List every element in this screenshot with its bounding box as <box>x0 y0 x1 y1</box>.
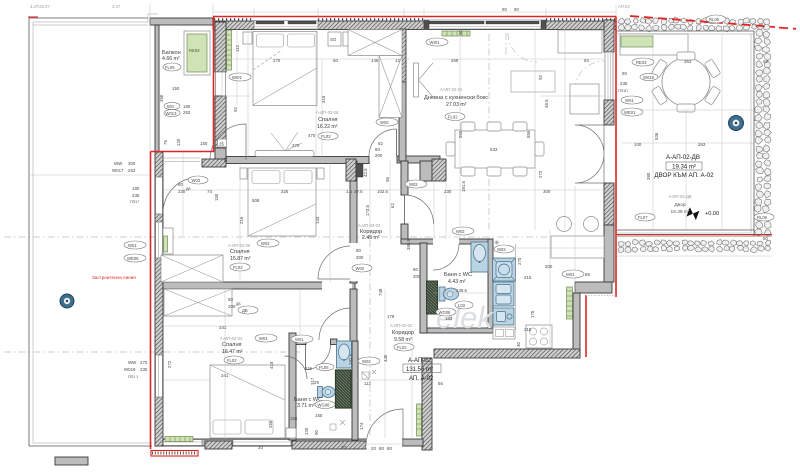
svg-text:42.5: 42.5 <box>363 168 368 177</box>
svg-text:418: 418 <box>269 361 274 369</box>
wardrobe bedroom2 with X <box>161 255 223 282</box>
construction thin lines vertical <box>150 4 722 439</box>
svg-text:263: 263 <box>698 142 706 147</box>
svg-text:180: 180 <box>132 186 140 191</box>
courtyard stone bands (rubble) <box>618 17 771 253</box>
svg-text:1.5: 1.5 <box>346 189 353 194</box>
terrace bottom-left hatched pad <box>55 457 88 465</box>
door arc wc lobby <box>285 356 308 379</box>
bedroom1/living divider wall <box>399 29 406 82</box>
svg-text:RL06: RL06 <box>709 17 720 22</box>
svg-text:92: 92 <box>538 75 543 80</box>
box 25 label <box>218 139 227 147</box>
svg-text:А-ИП-02-03: А-ИП-02-03 <box>358 223 381 228</box>
svg-text:341: 341 <box>221 373 229 378</box>
svg-text:92: 92 <box>233 107 238 112</box>
shaft box SO <box>328 32 341 46</box>
dashed slider arc living <box>508 33 537 62</box>
svg-text:300: 300 <box>543 189 551 194</box>
svg-text:80: 80 <box>413 267 418 272</box>
svg-text:46: 46 <box>347 380 352 385</box>
svg-text:Застроителна линия: Застроителна линия <box>92 275 136 280</box>
svg-text:230: 230 <box>444 189 452 194</box>
svg-text:175: 175 <box>530 310 535 318</box>
bottom wall hatched piece 1 <box>205 441 232 449</box>
svg-text:173.5: 173.5 <box>365 204 370 216</box>
bath1 washing machine <box>427 281 438 314</box>
svg-text:120: 120 <box>176 138 181 146</box>
kitchen stools <box>557 217 572 232</box>
balcony top wall <box>150 18 213 25</box>
svg-text:ПП1 1: ПП1 1 <box>128 375 138 379</box>
svg-text:ДВОР КЪМ АП. А-02: ДВОР КЪМ АП. А-02 <box>654 172 714 179</box>
window bedroom3 left <box>156 355 163 397</box>
svg-text:WE05: WE05 <box>127 256 139 261</box>
svg-text:82: 82 <box>378 141 383 146</box>
svg-text:RL06: RL06 <box>757 215 768 220</box>
svg-text:W02: W02 <box>362 359 371 364</box>
svg-text:508: 508 <box>252 198 260 203</box>
svg-text:Двор: Двор <box>674 202 685 208</box>
svg-text:12: 12 <box>395 58 400 63</box>
svg-text:300: 300 <box>545 264 553 269</box>
svg-text:FL07: FL07 <box>638 215 648 220</box>
red building line top <box>213 16 616 18</box>
corridor west wall <box>350 161 357 283</box>
svg-text:75: 75 <box>163 140 168 145</box>
svg-text:48.5: 48.5 <box>544 99 549 108</box>
svg-text:90: 90 <box>314 430 319 435</box>
terrace corner step top right <box>148 14 158 22</box>
kitchen hob unit <box>493 258 516 281</box>
svg-text:W02: W02 <box>497 247 506 252</box>
red building line balcony left <box>213 17 215 153</box>
svg-text:270: 270 <box>517 257 522 265</box>
bath2 walls <box>289 333 296 440</box>
svg-text:15.87 m²: 15.87 m² <box>230 256 251 262</box>
svg-text:270: 270 <box>140 360 148 365</box>
svg-text:385.5: 385.5 <box>406 238 411 250</box>
svg-text:112: 112 <box>364 381 372 386</box>
red building line west <box>150 152 152 450</box>
svg-text:230: 230 <box>178 189 186 194</box>
svg-text:3.71 m²: 3.71 m² <box>297 403 315 409</box>
svg-text:FL02: FL02 <box>321 134 331 139</box>
svg-text:440: 440 <box>383 354 388 362</box>
svg-text:62: 62 <box>390 203 395 208</box>
balcony bottom window band <box>163 157 200 159</box>
svg-text:FL05: FL05 <box>319 365 329 370</box>
door arc bath1 <box>433 244 459 270</box>
svg-text:180: 180 <box>183 104 191 109</box>
dashed window arc living right <box>575 61 604 90</box>
stove 4 rings <box>526 325 552 348</box>
svg-text:А-ИП-02-04: А-ИП-02-04 <box>220 336 243 341</box>
svg-text:W01: W01 <box>259 336 268 341</box>
svg-text:W01: W01 <box>295 337 304 342</box>
terrace outer wall bottom <box>29 445 152 447</box>
courtyard planter green <box>621 36 653 47</box>
svg-text:А-ИП-02-08: А-ИП-02-08 <box>316 110 339 115</box>
svg-text:235: 235 <box>140 367 148 372</box>
svg-text:ДВ: ДВ <box>186 187 191 191</box>
svg-text:16.47 m²: 16.47 m² <box>222 349 243 355</box>
svg-text:74: 74 <box>207 189 212 194</box>
svg-text:FL02: FL02 <box>397 345 407 350</box>
balcony door opening left wall <box>156 177 163 214</box>
svg-text:Спалня: Спалня <box>318 117 338 123</box>
dimension texts <box>112 30 768 451</box>
svg-text:Спалня: Спалня <box>222 342 242 348</box>
svg-text:272: 272 <box>167 360 172 368</box>
bath2 toilet <box>318 387 323 398</box>
bath2 washing machine <box>336 370 352 408</box>
svg-text:АП. А-02: АП. А-02 <box>409 376 434 382</box>
double door to courtyard upper leaf <box>575 125 604 154</box>
svg-text:А-ИП-02-01: А-ИП-02-01 <box>440 87 463 92</box>
bedroom1 left wall <box>215 22 226 72</box>
red dashed boundary over stone <box>630 16 775 27</box>
living/corridor wall piece <box>420 161 432 181</box>
red line kitchen east <box>585 295 587 357</box>
svg-text:215: 215 <box>524 327 532 332</box>
svg-text:80: 80 <box>375 147 380 152</box>
svg-text:150: 150 <box>172 86 180 91</box>
svg-text:50: 50 <box>763 59 768 64</box>
svg-text:155: 155 <box>315 413 323 418</box>
door arc corridor to bedroom3 <box>319 308 350 340</box>
svg-text:555: 555 <box>526 130 531 138</box>
column dark at corridor top <box>346 159 356 181</box>
svg-text:А-АП-02: А-АП-02 <box>408 358 432 364</box>
svg-text:192.5: 192.5 <box>348 353 353 365</box>
tv panel living <box>414 63 419 97</box>
misc glyph cluster corridor <box>362 370 376 379</box>
svg-text:120: 120 <box>304 427 309 435</box>
svg-text:80: 80 <box>178 182 183 187</box>
dining table <box>455 130 535 168</box>
door leaf bedroom1 <box>396 129 398 156</box>
svg-text:90: 90 <box>622 71 627 76</box>
door arc balcony into bedroom2 <box>163 178 191 214</box>
svg-text:Спалня: Спалня <box>230 249 250 255</box>
svg-text:А-АП-02-ДВ: А-АП-02-ДВ <box>666 154 700 161</box>
svg-text:3.47: 3.47 <box>112 4 121 9</box>
svg-text:80: 80 <box>379 446 384 451</box>
svg-text:163: 163 <box>445 316 453 321</box>
svg-text:ДВ: ДВ <box>236 302 241 306</box>
terrace drain <box>60 294 74 308</box>
desk bedroom2 <box>163 228 173 254</box>
corridor/bed3 wall vertical <box>350 289 357 354</box>
corridor east wall upper <box>401 161 408 195</box>
plant sketch bedroom1 <box>271 132 302 151</box>
svg-text:56: 56 <box>438 381 443 386</box>
svg-text:470: 470 <box>308 133 316 138</box>
bottom window bedroom3 <box>157 440 202 446</box>
svg-text:200: 200 <box>356 255 364 260</box>
radiator bedroom3 bottom <box>165 437 193 442</box>
svg-text:FL02: FL02 <box>227 358 237 363</box>
dining chairs sides <box>446 142 455 156</box>
courtyard bottom wall <box>617 229 754 231</box>
bath1 vanity sink <box>471 242 488 272</box>
radiator entrance <box>417 404 422 436</box>
svg-text:272: 272 <box>538 170 543 178</box>
right wall segment below door <box>604 183 614 225</box>
dining chairs bottom <box>461 167 475 176</box>
svg-text:Дневна с кухненски бокс: Дневна с кухненски бокс <box>424 95 488 101</box>
svg-text:Коридор: Коридор <box>392 330 414 336</box>
svg-text:90: 90 <box>514 7 519 12</box>
svg-text:341: 341 <box>219 325 227 330</box>
svg-text:363: 363 <box>684 59 692 64</box>
nightstand bedroom3 <box>286 428 296 438</box>
bath1 toilet <box>439 287 445 301</box>
radiator living top <box>442 31 470 36</box>
svg-text:W02: W02 <box>409 182 418 187</box>
svg-text:W019: W019 <box>124 367 136 372</box>
wardrobe bedroom1 with X <box>348 30 402 56</box>
window living right <box>605 52 613 100</box>
window bedroom1 top <box>254 18 318 29</box>
svg-text:WE01: WE01 <box>624 110 636 115</box>
svg-text:150: 150 <box>214 193 219 201</box>
svg-text:ПП1П: ПП1П <box>618 89 628 93</box>
door arc corridor to bedroom2 <box>318 246 350 279</box>
svg-text:WI01: WI01 <box>232 75 242 80</box>
svg-text:30: 30 <box>516 342 521 347</box>
svg-text:181.5: 181.5 <box>461 180 466 192</box>
svg-text:W017: W017 <box>112 168 124 173</box>
svg-text:150: 150 <box>200 141 208 146</box>
svg-text:300: 300 <box>128 161 136 166</box>
axis dashed line vertical corridor <box>369 240 371 438</box>
courtyard planter ledge <box>620 34 688 55</box>
red building line east <box>615 17 617 298</box>
kitchen east wall <box>573 293 580 358</box>
svg-text:50: 50 <box>763 236 768 241</box>
bath1 left wall <box>420 243 427 333</box>
kitchen base cabinet small <box>493 327 515 339</box>
nightstand bedroom1 left <box>243 32 252 44</box>
red corner mark top-left terrace <box>28 16 38 18</box>
svg-text:253: 253 <box>183 110 191 115</box>
bottom wall hatched piece 2 <box>292 441 366 449</box>
misc glyph cluster bath2 front <box>330 420 345 430</box>
svg-text:20: 20 <box>371 446 376 451</box>
radiator bedroom2 left wall <box>164 236 168 252</box>
svg-text:WG06: WG06 <box>439 310 452 315</box>
svg-text:80: 80 <box>228 297 233 302</box>
svg-text:145: 145 <box>371 58 379 63</box>
svg-text:27.03 m²: 27.03 m² <box>446 102 467 108</box>
svg-text:А-ИП-02-06: А-ИП-02-06 <box>228 243 251 248</box>
svg-text:25: 25 <box>219 142 224 147</box>
svg-text:100: 100 <box>634 142 642 147</box>
cabinet living top right <box>558 30 602 53</box>
svg-text:80: 80 <box>356 248 361 253</box>
svg-text:200: 200 <box>228 304 236 309</box>
svg-text:3.47/43.07: 3.47/43.07 <box>30 4 50 9</box>
svg-text:16.39 m²: 16.39 m² <box>671 209 690 215</box>
axis dashed line horizontal upper <box>4 236 600 238</box>
bottom wall of apartment <box>155 439 423 446</box>
door arc bath2 <box>306 345 331 370</box>
svg-text:315: 315 <box>321 95 326 103</box>
svg-text:FL06: FL06 <box>165 65 175 70</box>
svg-text:90: 90 <box>502 7 507 12</box>
right wall of living (to courtyard) <box>604 20 614 52</box>
wardrobe bedroom1 vertical part <box>379 56 402 118</box>
door arc small corridor to living <box>405 195 434 224</box>
bedroom1 left wall lower <box>215 96 226 148</box>
kitchen sink double <box>493 282 514 306</box>
svg-text:200: 200 <box>375 153 383 158</box>
bath1/kitchen divider wall <box>488 239 493 330</box>
bottom-right step wall <box>575 282 612 293</box>
kitchen bottom wall <box>434 349 580 358</box>
door arc bedroom2 top-left <box>210 124 246 160</box>
svg-text:Баня с WC: Баня с WC <box>444 272 472 278</box>
svg-text:215: 215 <box>524 275 532 280</box>
svg-text:WI01: WI01 <box>430 40 440 45</box>
wall right of small corridor <box>401 224 408 243</box>
svg-text:253: 253 <box>128 168 136 173</box>
svg-text:9.58 m²: 9.58 m² <box>394 337 412 343</box>
wardrobe bedroom3 with X <box>164 289 232 316</box>
axis dashed line horizontal lower <box>4 351 300 353</box>
svg-text:W01: W01 <box>128 243 137 248</box>
balcony corner blocks <box>215 148 226 159</box>
svg-text:131.56 m²: 131.56 m² <box>406 367 433 373</box>
bath2 sink <box>337 341 352 368</box>
svg-text:115: 115 <box>305 366 313 371</box>
door arc entrance <box>366 409 403 446</box>
door leaf small corridor <box>404 195 406 224</box>
svg-text:+0.00: +0.00 <box>705 211 719 217</box>
svg-text:174: 174 <box>359 422 364 430</box>
balcony planter RE03 <box>184 31 210 75</box>
svg-text:200: 200 <box>413 274 421 279</box>
svg-text:W02: W02 <box>356 266 365 271</box>
right wall segment <box>604 100 614 125</box>
kitchen counter top <box>551 236 604 258</box>
svg-text:265: 265 <box>268 420 273 428</box>
north arrow symbol <box>686 207 699 220</box>
svg-text:W02: W02 <box>380 120 389 125</box>
svg-text:90: 90 <box>458 30 463 35</box>
top wall band of apartment <box>213 21 616 30</box>
kitchen dishwasher <box>493 308 514 325</box>
bed bedroom1 <box>253 32 317 106</box>
svg-text:102.5: 102.5 <box>377 189 389 194</box>
courtyard drain <box>729 116 744 131</box>
svg-text:RE03: RE03 <box>636 60 647 65</box>
svg-text:W03: W03 <box>192 178 201 183</box>
svg-text:WG08: WG08 <box>318 402 331 407</box>
axis dashed line vertical living <box>488 34 490 230</box>
double door to courtyard lower leaf <box>575 154 604 183</box>
armchair living <box>570 84 599 114</box>
bath1 top wall <box>401 239 490 244</box>
svg-text:380: 380 <box>646 172 651 180</box>
wall bedroom1/bedroom2 divider <box>226 157 369 164</box>
terrace outer wall top <box>29 17 148 19</box>
svg-text:27.5: 27.5 <box>354 189 363 194</box>
svg-text:2.45 m²: 2.45 m² <box>362 235 380 241</box>
svg-text:748: 748 <box>378 288 383 296</box>
svg-text:268: 268 <box>451 58 459 63</box>
svg-text:372: 372 <box>292 143 300 148</box>
svg-text:16.22 m²: 16.22 m² <box>317 124 338 130</box>
wall bedroom2/bedroom3 divider <box>163 282 355 289</box>
svg-text:FL02: FL02 <box>448 114 458 119</box>
svg-text:85: 85 <box>585 272 590 277</box>
svg-text:235: 235 <box>132 193 140 198</box>
svg-text:133: 133 <box>315 216 320 224</box>
svg-text:275: 275 <box>273 58 281 63</box>
svg-text:ПП17: ПП17 <box>130 200 139 204</box>
svg-text:W02: W02 <box>456 229 465 234</box>
svg-text:А-ИП-02-ДВ: А-ИП-02-ДВ <box>668 194 691 199</box>
svg-text:FL02: FL02 <box>233 265 243 270</box>
svg-text:555: 555 <box>458 130 463 138</box>
insulation dotted band <box>214 18 615 20</box>
nightstand bedroom2 <box>240 168 247 179</box>
svg-text:20: 20 <box>341 445 346 450</box>
construction thin lines horizontal <box>29 59 772 444</box>
svg-text:W019: W019 <box>643 75 655 80</box>
radiator kitchen east <box>567 287 573 319</box>
svg-text:W013: W013 <box>166 111 178 116</box>
bath1 bottom wall <box>420 328 493 333</box>
svg-text:WG: WG <box>167 104 174 109</box>
svg-text:112: 112 <box>235 44 240 52</box>
door arc bedroom1 <box>369 129 397 157</box>
svg-text:WW: WW <box>128 360 137 365</box>
courtyard chairs <box>651 52 721 112</box>
svg-text:350: 350 <box>159 94 164 102</box>
svg-text:L03: L03 <box>458 303 466 308</box>
svg-text:4.66 m²: 4.66 m² <box>162 56 180 62</box>
svg-text:А-ИП-02-02: А-ИП-02-02 <box>390 323 413 328</box>
svg-text:SO: SO <box>330 37 337 42</box>
dining chairs top <box>461 122 475 131</box>
sideboard bedroom1 <box>255 151 314 157</box>
svg-text:4.43 m²: 4.43 m² <box>448 279 466 285</box>
left wall of bedroom block <box>155 152 163 446</box>
svg-text:155: 155 <box>290 416 298 421</box>
svg-text:WW: WW <box>114 161 123 166</box>
red building line balcony bottom <box>151 151 215 153</box>
kitchen counter line <box>515 244 517 330</box>
svg-text:W01: W01 <box>625 98 634 103</box>
svg-text:ДВ: ДВ <box>242 308 248 313</box>
bottom window corridor <box>233 440 291 446</box>
door leaf bath2 <box>305 345 307 370</box>
entrance opening <box>366 439 402 448</box>
svg-text:317: 317 <box>310 377 315 385</box>
top projection line <box>213 11 616 13</box>
window living top (terrace slider) <box>424 18 546 29</box>
window bedroom2 left <box>156 222 163 258</box>
courtyard top wall <box>617 30 754 32</box>
svg-text:96: 96 <box>385 177 390 182</box>
svg-text:19.34 m²: 19.34 m² <box>672 165 696 171</box>
courtyard right wall <box>753 31 755 236</box>
svg-text:325: 325 <box>281 189 289 194</box>
